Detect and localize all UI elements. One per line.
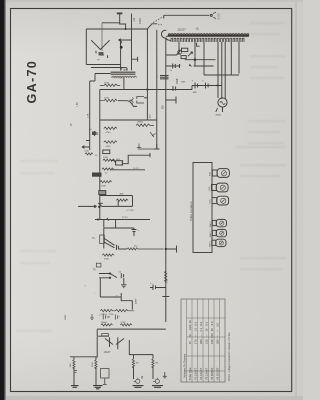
svg-text:GA-70: GA-70 bbox=[25, 60, 39, 104]
node stub y66 bbox=[166, 64, 180, 68]
wire AC line bbox=[164, 15, 210, 18]
svg-text:+7 2.2K: +7 2.2K bbox=[126, 210, 134, 212]
capacitor .02 c bbox=[121, 273, 123, 278]
svg-text:68K: 68K bbox=[70, 363, 72, 367]
svg-text:12AX7: 12AX7 bbox=[208, 240, 211, 247]
wire rectifier bottom bbox=[216, 107, 223, 112]
resistor 120K bbox=[85, 153, 93, 155]
wire bottom tick bbox=[155, 144, 160, 149]
wire V3 plate link bbox=[144, 97, 147, 99]
resistor 68K bbox=[73, 360, 75, 369]
transformer T2 core bbox=[111, 72, 136, 74]
wire arrow node A bbox=[78, 205, 97, 208]
capacitor .02 box b bbox=[96, 263, 101, 267]
junction dot bbox=[120, 46, 123, 49]
resistor 1MEG osc bbox=[136, 124, 154, 127]
tube socket V4b 6V6 base bbox=[212, 185, 217, 191]
ground cc bbox=[103, 378, 107, 384]
tick marks y219 bbox=[98, 218, 109, 221]
wire filter rail bbox=[192, 85, 222, 87]
wire B+ to secondary bbox=[166, 38, 171, 41]
wire grid step bbox=[120, 14, 126, 29]
tube V5 5Y3 leads bbox=[218, 42, 239, 99]
tube V4 grid cap bbox=[117, 12, 123, 14]
capacitor .02 blob bbox=[92, 132, 96, 136]
capacitor 20MF a bbox=[90, 314, 94, 320]
svg-text:N-T.C.: N-T.C. bbox=[134, 168, 141, 170]
tube V5 heater squiggle bbox=[220, 102, 225, 105]
svg-text:220K: 220K bbox=[104, 97, 110, 99]
tube socket V4a 6V6 bulb bbox=[217, 169, 229, 178]
ground aux bbox=[163, 372, 167, 378]
input jack J2 bbox=[155, 379, 159, 383]
svg-text:311537: 311537 bbox=[178, 29, 187, 32]
capacitor .05 coupling bbox=[173, 86, 176, 91]
wire fuse to primary bbox=[166, 35, 170, 37]
tube V5 5Y3 envelope bbox=[218, 98, 227, 107]
junction B+ bbox=[165, 248, 167, 250]
svg-text:120K: 120K bbox=[84, 151, 90, 153]
svg-text:1M: 1M bbox=[155, 363, 158, 365]
svg-text:270K: 270K bbox=[121, 322, 127, 324]
svg-text:12AX7: 12AX7 bbox=[209, 220, 212, 227]
resistor treble bbox=[102, 168, 114, 170]
svg-text:1.5K: 1.5K bbox=[77, 102, 79, 107]
svg-text:OUT.TRANS: OUT.TRANS bbox=[112, 76, 125, 79]
wire OT left lead bbox=[90, 74, 111, 82]
wire tone step bbox=[111, 160, 116, 162]
node B+ stub bbox=[166, 97, 176, 104]
svg-text:Voltages To Chassis: Voltages To Chassis bbox=[182, 353, 186, 378]
pot hum circle bbox=[178, 50, 182, 54]
svg-text:470K: 470K bbox=[106, 146, 112, 148]
svg-text:170 — 1.2 6.3: 170 — 1.2 6.3 bbox=[193, 321, 197, 344]
capacitor 20MF c bbox=[115, 315, 117, 320]
wire y228 bbox=[104, 227, 134, 229]
filter cap block bbox=[160, 76, 169, 79]
wire tone bottom bbox=[99, 203, 133, 206]
wire plate row bbox=[118, 248, 127, 250]
svg-text:V5 5Y3GT: V5 5Y3GT bbox=[215, 367, 219, 380]
wire heater arrow bbox=[188, 52, 193, 56]
tube pins bbox=[124, 69, 128, 72]
cathode cap box bbox=[101, 369, 110, 379]
tube socket V4b 6V6 bulb bbox=[216, 183, 228, 192]
resistor 1500 bbox=[95, 360, 97, 369]
resistor 4700 bbox=[104, 127, 117, 130]
resistor plate inline bbox=[127, 248, 164, 250]
resistor 1MEG grid bbox=[101, 324, 113, 326]
svg-text:T¼: T¼ bbox=[92, 237, 95, 240]
switch S1 dashes lower bbox=[158, 24, 163, 26]
svg-text:1MEG: 1MEG bbox=[101, 322, 107, 324]
svg-text:500K: 500K bbox=[103, 157, 109, 159]
switch tone bbox=[99, 274, 117, 278]
junction filter bbox=[217, 84, 219, 86]
wire treble out bbox=[112, 169, 145, 171]
wire 68K leads bbox=[73, 357, 75, 385]
wire 220K slope bbox=[118, 101, 137, 107]
tube V2 cathode line bbox=[103, 228, 105, 249]
tube V4 6V6 cathode line bbox=[120, 40, 122, 71]
svg-text:470K: 470K bbox=[104, 82, 110, 84]
wire second rail bbox=[99, 90, 101, 220]
plug P1 bbox=[210, 14, 212, 16]
resistor hum box b bbox=[181, 56, 186, 59]
capacitor 20MF b bbox=[103, 315, 110, 320]
wire tone mid vertical bbox=[117, 201, 119, 207]
junction heater bbox=[194, 59, 196, 61]
transformer T1 primary winding bbox=[168, 33, 249, 34]
wire V3 grid lead bbox=[130, 99, 133, 101]
tube V2 plate diagonals bbox=[104, 239, 114, 248]
svg-text:12AX7: 12AX7 bbox=[104, 351, 112, 354]
wire tap3 bbox=[203, 42, 205, 75]
resistor row 1MEG bbox=[100, 309, 134, 311]
tick B+ bbox=[162, 296, 169, 298]
pot box b bbox=[99, 191, 106, 195]
capacitor stub bars bbox=[173, 64, 176, 69]
tube socket V5 5Y3 bulb bbox=[217, 196, 229, 205]
chassis outline bbox=[193, 163, 212, 253]
tube V4 6V6 plate line bbox=[131, 14, 133, 71]
input jack J1 bbox=[136, 379, 140, 383]
fuse F1 bbox=[161, 30, 166, 38]
speaker SPKR cone bbox=[91, 40, 110, 49]
ground cap c bbox=[121, 285, 127, 288]
wire speaker bottom bbox=[86, 64, 120, 66]
ground cathode2 bbox=[93, 386, 103, 389]
svg-text:20MF: 20MF bbox=[65, 314, 67, 320]
svg-text:250K: 250K bbox=[101, 185, 107, 187]
speaker coil marks bbox=[96, 51, 108, 58]
capacitor input box bbox=[102, 334, 109, 336]
tube V3 12AX7 plates bbox=[137, 97, 144, 103]
tube socket V2 base bbox=[212, 230, 216, 235]
grid squiggle bbox=[120, 41, 122, 45]
wire voice coil lead bbox=[101, 23, 103, 51]
svg-text:4MF: 4MF bbox=[193, 92, 198, 94]
resistor 270K grid bbox=[120, 324, 132, 326]
node stub y55 bbox=[166, 51, 181, 56]
svg-text:1MF: 1MF bbox=[181, 82, 186, 84]
transformer T1 core bbox=[168, 35, 249, 36]
wire speaker left bbox=[85, 29, 87, 65]
ground cathode1 bbox=[71, 386, 79, 388]
svg-text:+: + bbox=[192, 79, 194, 83]
wire speaker bottom 2 bbox=[91, 67, 123, 69]
wire tap2 bbox=[197, 43, 200, 47]
capacitor osc bbox=[150, 132, 156, 137]
wire cathode left bbox=[96, 337, 98, 357]
resistor 470K c bbox=[102, 254, 114, 256]
wire B+ stub2 bbox=[166, 246, 177, 253]
svg-text:10K: 10K bbox=[167, 279, 169, 283]
wire switch down bbox=[100, 278, 121, 297]
wire OT bottom lead bbox=[123, 78, 125, 90]
resistor hum box a bbox=[182, 48, 188, 51]
capacitor stage2 bars bbox=[117, 245, 119, 250]
svg-text:Tube Location: Tube Location bbox=[189, 201, 193, 221]
capacitor .02 box stage2 bbox=[100, 235, 105, 244]
svg-text:4700: 4700 bbox=[106, 132, 112, 134]
capacitor osc ground bbox=[137, 144, 157, 150]
filter capacitor C20MF b bbox=[206, 83, 209, 89]
transformer T1 secondary winding bbox=[171, 38, 244, 42]
wire 1500 leads bbox=[95, 357, 97, 385]
tube V3 grid squiggle bbox=[131, 98, 133, 104]
svg-text:V3 12AX7: V3 12AX7 bbox=[204, 367, 208, 380]
wire heater row bbox=[185, 59, 216, 61]
ghost print show-through bbox=[16, 22, 286, 332]
tube socket V1 bulb bbox=[216, 219, 226, 226]
svg-text:415 410 20 6.3: 415 410 20 6.3 bbox=[210, 321, 214, 344]
svg-text:1MEG 270K: 1MEG 270K bbox=[101, 314, 115, 316]
wire switch drop bbox=[156, 30, 158, 149]
page edge (scan) bbox=[0, 0, 5, 400]
svg-text:All D.C. voltages measured to: All D.C. voltages measured to chassis 11… bbox=[228, 332, 231, 381]
svg-text:Tube Type: Tube Type bbox=[188, 367, 192, 380]
svg-text:1MEG: 1MEG bbox=[137, 122, 143, 124]
resistor 250K bbox=[100, 181, 112, 183]
junction V3 bbox=[146, 88, 148, 90]
svg-text:+: + bbox=[202, 79, 204, 83]
tube socket V2 bulb bbox=[216, 229, 226, 236]
tube socket V3 bulb bbox=[216, 239, 226, 246]
resistor 470K p bbox=[100, 84, 120, 87]
resistor 470K grid1 bbox=[132, 359, 134, 368]
resistor 470 tone bbox=[116, 199, 128, 201]
wire screen corner bbox=[121, 293, 132, 310]
wire screen stub bbox=[132, 57, 138, 62]
svg-text:V2 12AX7: V2 12AX7 bbox=[199, 367, 203, 380]
wire 1MEG j2 leads bbox=[152, 355, 154, 379]
wire V3 top bbox=[146, 29, 148, 120]
wire B+ rail bbox=[165, 38, 167, 323]
capacitor 40MF b bbox=[132, 228, 137, 236]
pot dark bbox=[92, 173, 102, 177]
tick left bbox=[86, 140, 90, 142]
svg-text:3300: 3300 bbox=[104, 259, 110, 261]
tube socket V1 base bbox=[212, 220, 216, 225]
filter capacitor C20MF bbox=[195, 83, 198, 89]
junction y29 bbox=[125, 28, 127, 30]
svg-text:Pl. Sc. Cath Fil: Pl. Sc. Cath Fil bbox=[188, 320, 192, 344]
table VOLTAGES TO CHASSIS bbox=[181, 299, 225, 382]
wire grid arrow bbox=[119, 39, 132, 42]
wire heater row b bbox=[194, 65, 214, 67]
wire grid y120 bbox=[100, 119, 157, 121]
cathode marks bbox=[74, 371, 78, 373]
svg-text:12AX7: 12AX7 bbox=[209, 230, 212, 237]
tube socket V4a 6V6 base bbox=[212, 170, 217, 176]
wire grid left bbox=[97, 329, 109, 336]
wire B+ feed bbox=[100, 86, 192, 90]
svg-text:V1 12AX7: V1 12AX7 bbox=[193, 367, 197, 380]
capacitor .02 a bbox=[95, 131, 98, 136]
resistor 1MEG j2 bbox=[152, 359, 154, 368]
tube V1 12AX7 grids bbox=[105, 339, 124, 345]
transformer T2 primary loop bbox=[121, 68, 127, 71]
wire drop b bbox=[115, 220, 117, 228]
junction rail A bbox=[98, 206, 100, 208]
ground J2 bbox=[152, 386, 163, 388]
wire tone riser bbox=[123, 153, 150, 164]
wire y219 bbox=[95, 219, 150, 221]
svg-text:20MF: 20MF bbox=[177, 78, 179, 84]
wire top link bbox=[102, 22, 120, 24]
resistor 470K b bbox=[104, 141, 117, 144]
svg-text:↓5Y3: ↓5Y3 bbox=[215, 114, 221, 117]
svg-text:215 — 10 6.3: 215 — 10 6.3 bbox=[204, 321, 208, 344]
tube V1 cathode lines bbox=[110, 337, 118, 349]
heater end marks bbox=[189, 64, 192, 67]
svg-text:30 20: 30 20 bbox=[122, 217, 128, 219]
ground J1 bbox=[133, 386, 144, 388]
wire tone top bbox=[100, 196, 133, 207]
capacitor coupling out bbox=[150, 285, 166, 291]
wire arrow tremolo bbox=[82, 146, 90, 149]
wire plate down bbox=[129, 340, 153, 355]
tube socket V5 5Y3 base bbox=[212, 198, 217, 204]
wire HV tap bbox=[177, 42, 181, 54]
svg-text:0-115: 0-115 bbox=[218, 13, 221, 20]
component box A23 bbox=[116, 161, 123, 165]
wire y329 bbox=[97, 328, 166, 330]
svg-text:1M: 1M bbox=[136, 363, 139, 365]
tube socket V3 base bbox=[212, 240, 216, 245]
wire heater tap bbox=[194, 42, 196, 66]
switch S1 toggle bbox=[147, 24, 157, 29]
wire cathode tops bbox=[70, 356, 98, 358]
resistor 500K bbox=[103, 159, 115, 161]
svg-text:V4 6V6GT: V4 6V6GT bbox=[210, 367, 214, 380]
svg-text:350 — — 5.0: 350 — — 5.0 bbox=[215, 322, 219, 344]
volume pot box bbox=[103, 150, 110, 154]
wire cap drop bbox=[123, 278, 125, 284]
svg-text:40MF: 40MF bbox=[136, 298, 138, 304]
speaker magnet bbox=[99, 52, 104, 55]
wire speaker top bbox=[86, 28, 148, 30]
wire 470K leads bbox=[133, 355, 135, 379]
svg-text:200 — 2.1 6.3: 200 — 2.1 6.3 bbox=[199, 321, 203, 344]
svg-text:1.5K: 1.5K bbox=[88, 113, 90, 118]
resistor 220K bbox=[100, 99, 117, 102]
transformer T2 secondary winding bbox=[112, 76, 137, 77]
svg-text:+20: +20 bbox=[133, 17, 136, 22]
switch S1 dashes upper bbox=[153, 17, 163, 23]
svg-text:1M: 1M bbox=[142, 376, 144, 379]
wire heater bottom bbox=[204, 74, 239, 76]
resistor B+ drop bbox=[165, 271, 167, 282]
wire main rail left bbox=[89, 81, 91, 150]
wire drop a bbox=[103, 220, 105, 228]
svg-text:415V: 415V bbox=[138, 18, 142, 24]
